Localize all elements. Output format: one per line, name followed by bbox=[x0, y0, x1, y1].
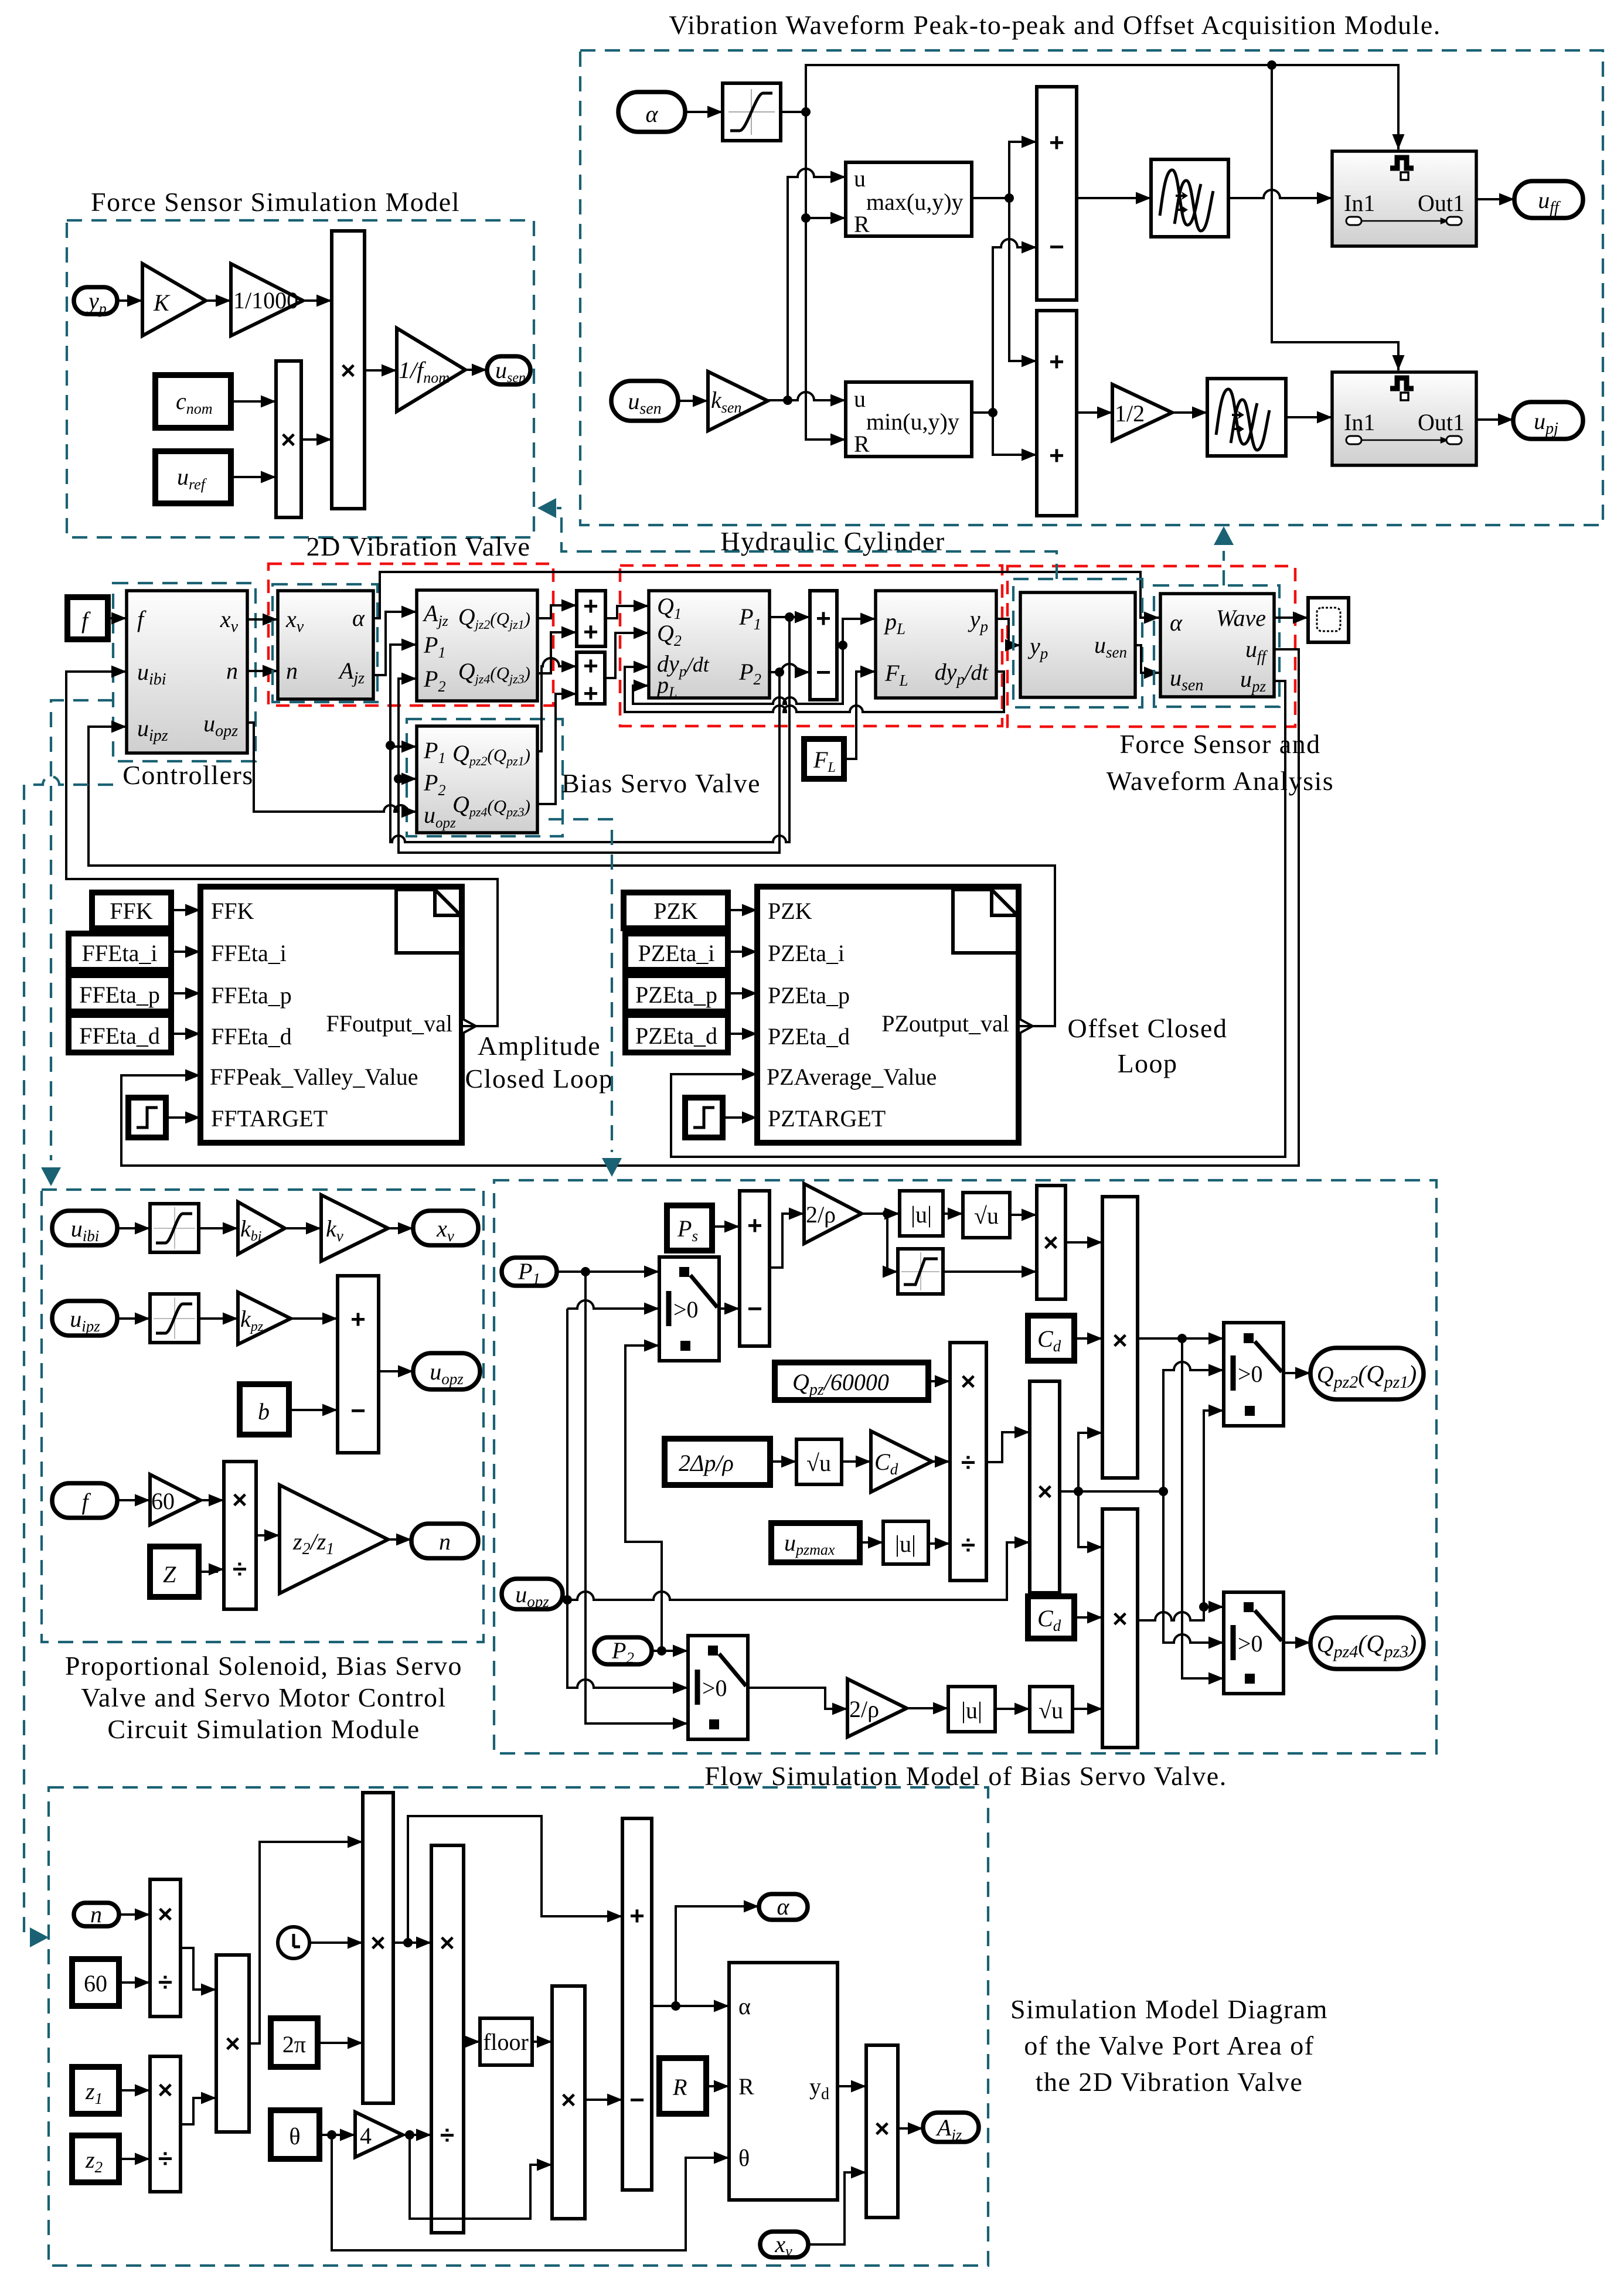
hydraulic cylinder block bbox=[649, 591, 770, 701]
svg-text:Wave: Wave bbox=[1216, 605, 1266, 631]
node ksen out bbox=[783, 396, 792, 405]
svg-text:60: 60 bbox=[84, 1970, 107, 1997]
node tallx1 out bbox=[1177, 1334, 1187, 1343]
svg-text:×: × bbox=[961, 1367, 976, 1396]
svg-text:PZTARGET: PZTARGET bbox=[768, 1105, 886, 1132]
gain Cd bbox=[871, 1431, 932, 1492]
wire controllers xv to valve xv bbox=[247, 618, 278, 621]
svg-text:÷: ÷ bbox=[961, 1531, 975, 1559]
svg-text:>0: >0 bbox=[673, 1296, 699, 1323]
wire abs to sqrt bbox=[943, 1212, 963, 1215]
constant 2dp/rho bbox=[665, 1439, 770, 1485]
node P1 to bias bbox=[386, 741, 395, 750]
wire prod5 to floor bbox=[464, 2041, 480, 2043]
svg-text:÷: ÷ bbox=[158, 1968, 172, 1997]
svg-text:÷: ÷ bbox=[440, 2121, 454, 2150]
wire Cd2 to tallx2 bbox=[1074, 1616, 1102, 1619]
wire alpha long to waveform analysis bbox=[373, 572, 1159, 618]
svg-text:−: − bbox=[816, 658, 831, 687]
switch top bbox=[1224, 1323, 1283, 1426]
node P2 to bias bbox=[394, 774, 403, 784]
svg-text:Proportional Solenoid, Bias Se: Proportional Solenoid, Bias Servo bbox=[65, 1651, 462, 1681]
svg-text:α: α bbox=[1170, 609, 1183, 636]
node theta bbox=[327, 2130, 336, 2140]
svg-text:n: n bbox=[90, 1901, 102, 1927]
riser P1 feedback bbox=[390, 617, 789, 842]
svg-text:×: × bbox=[440, 1929, 455, 1957]
wire Z to prod6 bbox=[199, 1569, 224, 1572]
svg-text:−: − bbox=[1049, 233, 1064, 261]
red box force sensor and waveform bbox=[1007, 566, 1295, 727]
wire dot2 down to switchbot control with hop bbox=[1163, 1491, 1224, 1643]
svg-text:÷: ÷ bbox=[961, 1448, 975, 1477]
gain K bbox=[142, 264, 206, 336]
svg-text:>0: >0 bbox=[1238, 1361, 1263, 1387]
inport oval alpha bbox=[618, 92, 685, 132]
product rightx bbox=[552, 1986, 585, 2219]
wire rightx to alphasum minus bbox=[585, 2099, 622, 2101]
wire sat3 to kpz bbox=[199, 1317, 238, 1320]
source FFEta_d bbox=[69, 1015, 171, 1052]
constant Qpz60000 bbox=[775, 1362, 928, 1400]
abs block 2 bbox=[883, 1521, 928, 1564]
wire sqrt3 to tallx2 bbox=[1073, 1708, 1102, 1710]
enabled subsystem 2 bbox=[1332, 372, 1476, 465]
wire prod2 to prod3 bbox=[181, 2098, 216, 2124]
gain ksen bbox=[708, 372, 768, 431]
connector waveform module annotation bbox=[1214, 526, 1234, 585]
svg-text:PZEta_i: PZEta_i bbox=[768, 940, 845, 966]
product prod1 bbox=[150, 1879, 181, 2017]
svg-text:Out1: Out1 bbox=[1418, 190, 1465, 216]
saturation block 2 bbox=[150, 1204, 199, 1252]
wire wave1 to subsystem1 In1 with hop bbox=[1228, 190, 1332, 198]
source block f bbox=[67, 597, 108, 639]
svg-text:+: + bbox=[629, 1902, 645, 1930]
svg-text:In1: In1 bbox=[1344, 409, 1375, 435]
wire floor to rightx bbox=[532, 2041, 552, 2043]
svg-text:4: 4 bbox=[360, 2123, 372, 2149]
wire step to FFTARGET bbox=[166, 1116, 200, 1119]
wire PZoutput to uipz bbox=[88, 727, 1055, 1026]
wire pL feedback down and left bbox=[633, 645, 843, 704]
svg-text:PZoutput_val: PZoutput_val bbox=[881, 1010, 1009, 1037]
gain 2rho2 bbox=[847, 1679, 907, 1737]
wire tallx4 out to prod5 bbox=[393, 1941, 431, 1944]
outport oval alpha2 bbox=[759, 1893, 808, 1920]
constant Z bbox=[150, 1547, 199, 1597]
product1 tall bbox=[332, 231, 365, 509]
svg-text:Qpz/60000: Qpz/60000 bbox=[792, 1369, 889, 1399]
wire sum pL to piston pL bbox=[837, 619, 876, 645]
source FFEta_i bbox=[69, 934, 171, 970]
svg-text:÷: ÷ bbox=[233, 1555, 247, 1583]
outport oval xv bbox=[413, 1211, 478, 1245]
svg-text:>0: >0 bbox=[702, 1675, 727, 1701]
wire xv2 to finalx bbox=[808, 2172, 866, 2244]
gain 2/rho top bbox=[804, 1184, 862, 1244]
wire top rail branch down to subsystem2 enable bbox=[1272, 65, 1398, 370]
riser uopz down to switch2 control with hop bbox=[567, 1600, 688, 1688]
node gain4 out bbox=[405, 2130, 414, 2140]
svg-text:+: + bbox=[1049, 128, 1064, 157]
source PZEta_i bbox=[625, 934, 728, 970]
force sensor block bbox=[1020, 592, 1135, 697]
wire uibi to sat2 bbox=[117, 1227, 150, 1229]
svg-text:α: α bbox=[777, 1893, 790, 1920]
outport oval uopz bbox=[413, 1353, 480, 1389]
svg-text:+: + bbox=[1049, 441, 1064, 470]
svg-text:+: + bbox=[583, 652, 598, 680]
wire theta branch to subsystem theta bbox=[332, 2135, 729, 2250]
wire max branch down to sum2 plus bbox=[1009, 198, 1037, 361]
wire 60 to prod6 bbox=[200, 1499, 224, 1501]
wire dypdt feedback bbox=[625, 667, 1004, 712]
svg-text:the 2D Vibration Valve: the 2D Vibration Valve bbox=[1036, 2067, 1303, 2097]
svg-text:×: × bbox=[1112, 1605, 1128, 1633]
wire P2 jog to switch1 lower input bbox=[625, 1346, 662, 1651]
svg-text:Simulation Model Diagram: Simulation Model Diagram bbox=[1010, 1994, 1328, 2024]
bias servo flow block bbox=[417, 726, 537, 833]
sqrt block 3 bbox=[1030, 1687, 1073, 1732]
svg-text:×: × bbox=[561, 2086, 576, 2114]
output nib FFoutput_val bbox=[462, 1019, 476, 1034]
svg-text:×: × bbox=[1043, 1228, 1058, 1257]
svg-text:×: × bbox=[341, 356, 356, 385]
wire FL to piston bbox=[844, 672, 876, 759]
wire Qpz2 to sumB with hop bbox=[537, 658, 577, 751]
product prodB bbox=[950, 1343, 986, 1580]
svg-text:n: n bbox=[286, 658, 298, 684]
svg-text:√u: √u bbox=[974, 1203, 999, 1229]
svg-text:u: u bbox=[854, 165, 866, 192]
svg-text:Bias Servo Valve: Bias Servo Valve bbox=[561, 768, 761, 798]
wire tallx4 branch up over to alpha sum bbox=[408, 1816, 622, 1943]
wire yp to force sensor bbox=[996, 619, 1020, 645]
svg-text:R: R bbox=[854, 431, 870, 457]
svg-text:FFEta_i: FFEta_i bbox=[82, 940, 158, 966]
wire Qpz60000 to prodB bbox=[928, 1380, 950, 1382]
svg-text:PZEta_p: PZEta_p bbox=[635, 982, 717, 1008]
wire z1 to prod2 bbox=[119, 2089, 150, 2092]
annotation box flow simulation bbox=[494, 1180, 1436, 1753]
wire subsystem1 to uff bbox=[1476, 198, 1514, 200]
outport oval Qpz4(Qpz3) bbox=[1310, 1617, 1424, 1669]
wire sqrt to prodA bbox=[1010, 1214, 1037, 1216]
wires PZ sources to PZ block bbox=[728, 909, 757, 911]
annotation box vibration waveform module bbox=[580, 50, 1603, 525]
svg-text:n: n bbox=[439, 1528, 451, 1555]
constant theta bbox=[271, 2110, 319, 2159]
wire sum3 to uopz bbox=[379, 1370, 413, 1372]
wire half to wave2 bbox=[1172, 411, 1207, 414]
wire z2z1 to n bbox=[388, 1538, 411, 1541]
svg-text:max(u,y)y: max(u,y)y bbox=[866, 189, 963, 215]
wire P2 branch to bias P2 bbox=[399, 778, 417, 780]
switch1 bbox=[659, 1257, 719, 1361]
wire saturation out to junction and top rail to subsystem1 enable bbox=[781, 65, 1398, 149]
svg-text:+: + bbox=[583, 618, 598, 646]
sqrt block u1 bbox=[963, 1193, 1010, 1238]
wire sumA to Q1 bbox=[605, 606, 649, 618]
wire abs2 to prodB bbox=[928, 1542, 950, 1545]
wire f2 to 60 gain bbox=[117, 1499, 150, 1501]
wire 2dp to sqrt2 bbox=[770, 1460, 796, 1463]
red box hydraulic cylinder bbox=[620, 566, 1002, 726]
wire prodB to midx bbox=[986, 1432, 1030, 1462]
inport oval usen bbox=[611, 381, 678, 421]
node after 2rho bbox=[883, 1209, 892, 1218]
wire uopz riser to switch1 control with hop bbox=[567, 1300, 659, 1309]
outport oval Ajz2 bbox=[923, 2113, 979, 2144]
svg-text:floor: floor bbox=[483, 2029, 529, 2055]
svg-text:√u: √u bbox=[806, 1450, 831, 1476]
wire dot1 up to tallx1 third input bbox=[1078, 1433, 1102, 1491]
product midx bbox=[1030, 1381, 1060, 1593]
sum pL bbox=[810, 591, 837, 700]
svg-text:b: b bbox=[258, 1398, 270, 1425]
annotation box waveform analysis bbox=[1154, 585, 1279, 707]
product2 small bbox=[276, 361, 301, 517]
wire midx out bbox=[1060, 1490, 1163, 1493]
product tallx4 bbox=[363, 1793, 393, 2103]
inport oval f2 bbox=[52, 1483, 117, 1518]
wire yd to finalx bbox=[837, 2085, 866, 2087]
svg-text:FFTARGET: FFTARGET bbox=[211, 1105, 328, 1132]
product prodA bbox=[1037, 1186, 1065, 1299]
node saturation out bbox=[801, 107, 811, 117]
gain kbi bbox=[238, 1202, 285, 1254]
svg-text:FFK: FFK bbox=[110, 898, 152, 924]
product prod6 bbox=[224, 1462, 256, 1609]
svg-text:−: − bbox=[747, 1295, 762, 1323]
source FFK bbox=[92, 893, 171, 928]
inport oval xv2 bbox=[760, 2231, 808, 2260]
svg-text:+: + bbox=[583, 679, 598, 708]
annotation box valve port area bbox=[49, 1787, 988, 2266]
svg-text:R: R bbox=[854, 211, 870, 237]
svg-text:θ: θ bbox=[289, 2123, 300, 2150]
node R branch bbox=[801, 213, 811, 223]
2d valve subsystem bbox=[278, 591, 373, 699]
wire kpz to sum3 bbox=[291, 1317, 338, 1320]
svg-text:|u|: |u| bbox=[895, 1531, 916, 1557]
waveform analysis block bbox=[1160, 594, 1274, 697]
wire 2rho branch to deadzone bbox=[887, 1214, 898, 1272]
svg-text:−: − bbox=[629, 2086, 645, 2114]
min block bbox=[846, 382, 972, 457]
constant upzmax bbox=[771, 1523, 860, 1562]
svg-text:PZK: PZK bbox=[768, 898, 812, 924]
sum1 peak minus valley bbox=[1037, 87, 1077, 300]
constant cnom bbox=[155, 375, 231, 428]
product prod5 bbox=[431, 1845, 464, 2233]
svg-text:Controllers: Controllers bbox=[122, 760, 253, 790]
wire alphasum out to subsystem alpha bbox=[652, 2005, 729, 2007]
connector controllers annotation bbox=[41, 700, 113, 1186]
node tallx2 branch bbox=[1199, 1602, 1208, 1612]
wire tallx2 out up to switchtop bottom with hops bbox=[1138, 1411, 1224, 1620]
wire min branch down to sum2 plus2 bbox=[993, 413, 1037, 455]
svg-text:>0: >0 bbox=[1238, 1630, 1263, 1657]
wire P2 to switch2 bbox=[652, 1650, 688, 1652]
wire sqrt2 to Cd gain bbox=[842, 1460, 871, 1463]
sum alpha bbox=[622, 1818, 652, 2190]
svg-text:FFoutput_val: FFoutput_val bbox=[326, 1010, 452, 1037]
svg-text:FFPeak_Valley_Value: FFPeak_Valley_Value bbox=[210, 1064, 418, 1090]
floor block bbox=[480, 2018, 532, 2065]
svg-text:Circuit Simulation Module: Circuit Simulation Module bbox=[107, 1714, 420, 1744]
sumA Q1 bbox=[577, 591, 605, 646]
wave block 1 bbox=[1151, 159, 1228, 237]
wire b to sum3 bbox=[289, 1409, 338, 1411]
wire Qjz2 to sumA bbox=[537, 605, 577, 618]
svg-text:×: × bbox=[225, 2029, 240, 2058]
constant Ps bbox=[667, 1205, 712, 1251]
node tallx4 out bbox=[403, 1938, 413, 1947]
svg-text:1/2: 1/2 bbox=[1115, 400, 1145, 427]
outport oval n bbox=[411, 1524, 478, 1558]
svg-text:PZEta_i: PZEta_i bbox=[638, 940, 714, 966]
max block bbox=[846, 162, 972, 237]
node max out bbox=[1005, 193, 1014, 203]
node midx dot1 bbox=[1074, 1487, 1083, 1496]
svg-text:FFEta_d: FFEta_d bbox=[79, 1023, 160, 1049]
wire prod6 to z2z1 bbox=[256, 1534, 280, 1537]
node P1 out bbox=[785, 612, 794, 622]
flowsum bbox=[740, 1191, 770, 1346]
wire Ps to flowsum bbox=[712, 1225, 740, 1228]
sqrt block 2 bbox=[796, 1439, 842, 1484]
PZ matlab function block bbox=[757, 887, 1019, 1143]
svg-text:K: K bbox=[153, 289, 171, 316]
svg-text:×: × bbox=[1112, 1326, 1128, 1355]
svg-text:×: × bbox=[158, 2076, 173, 2104]
node uopz bbox=[563, 1595, 572, 1605]
node P2 bbox=[657, 1646, 666, 1656]
svg-text:min(u,y)y: min(u,y)y bbox=[866, 408, 959, 435]
svg-text:+: + bbox=[1049, 348, 1064, 376]
connector force sensor annotation bbox=[537, 498, 1057, 579]
wire usen to waveform bbox=[1135, 645, 1159, 673]
wire deadzone to prodA bbox=[943, 1270, 1037, 1273]
gain 1/1000 bbox=[231, 264, 303, 336]
outport oval Qpz2(Qpz1) bbox=[1310, 1348, 1424, 1399]
wire Qjz4 to sumA lower bbox=[537, 632, 577, 673]
wire dot2 up to switchtop control with hop bbox=[1163, 1362, 1224, 1491]
product prod3 bbox=[216, 1955, 249, 2132]
gain 4 bbox=[355, 2112, 403, 2157]
svg-text:√u: √u bbox=[1039, 1697, 1063, 1723]
wire max out to sum1 plus bbox=[972, 142, 1037, 198]
wire Ajz to Qjz block bbox=[373, 612, 417, 675]
wire P2 to sum minus with hop bbox=[770, 664, 810, 672]
svg-text:θ: θ bbox=[738, 2145, 750, 2171]
abs block u1 bbox=[900, 1191, 943, 1236]
svg-text:|u|: |u| bbox=[961, 1697, 982, 1723]
gain 60 bbox=[150, 1474, 200, 1525]
source FFEta_p bbox=[69, 975, 171, 1011]
node min out bbox=[988, 408, 997, 417]
source PZK bbox=[624, 893, 728, 928]
wire wave2 to subsystem2 bbox=[1286, 416, 1332, 418]
wire product2 to product1 bbox=[301, 438, 332, 441]
svg-text:2Δp/ρ: 2Δp/ρ bbox=[679, 1450, 734, 1476]
svg-text:−: − bbox=[350, 1396, 366, 1425]
svg-text:Valve and Servo Motor Control: Valve and Servo Motor Control bbox=[81, 1682, 447, 1712]
svg-text:PZK: PZK bbox=[653, 898, 698, 924]
inport oval uopz2 bbox=[502, 1579, 563, 1610]
wire kbi to kv bbox=[285, 1227, 321, 1229]
wire sum1 to wave1 bbox=[1077, 197, 1151, 199]
saturation block top bbox=[723, 83, 781, 141]
product prod2 bbox=[150, 2056, 181, 2192]
wire gain4 to prod5 bbox=[403, 2134, 431, 2136]
wire Cd gain to prodB bbox=[932, 1460, 950, 1463]
gain 1/fnom bbox=[397, 328, 465, 411]
svg-text:+: + bbox=[816, 604, 831, 633]
abs block 3 bbox=[948, 1687, 995, 1732]
svg-text:60: 60 bbox=[151, 1488, 175, 1514]
wire n2 to prod1 bbox=[119, 1913, 150, 1916]
wire P1 to sum plus bbox=[770, 616, 810, 618]
inport oval uipz bbox=[52, 1301, 117, 1336]
wire upzmax to abs2 bbox=[860, 1541, 883, 1544]
svg-text:2D Vibration Valve: 2D Vibration Valve bbox=[307, 532, 531, 561]
wire sumB to Q2 bbox=[605, 633, 649, 678]
product tallx2 bbox=[1102, 1509, 1138, 1748]
saturation block 3 bbox=[150, 1294, 199, 1343]
svg-text:+: + bbox=[350, 1305, 366, 1334]
step block PZTARGET bbox=[685, 1098, 723, 1137]
wire uopz from controllers to bias with hops bbox=[247, 723, 417, 812]
wire cnom to product2 bbox=[231, 400, 276, 403]
annotation box force sensor sim model bbox=[67, 220, 534, 537]
wire sat2 to kbi bbox=[199, 1227, 238, 1229]
svg-text:|u|: |u| bbox=[911, 1201, 932, 1228]
svg-text:FFEta_p: FFEta_p bbox=[211, 982, 292, 1009]
svg-text:×: × bbox=[158, 1900, 173, 1929]
svg-text:×: × bbox=[281, 425, 296, 454]
annotation box force sensor bbox=[1013, 579, 1142, 707]
wire uref to product2 bbox=[231, 476, 276, 478]
wire gain4 branch to rightx lower bbox=[410, 2135, 552, 2219]
wire 2pi to tallx4 bbox=[318, 2042, 363, 2044]
wire P1 branch to bias P1 bbox=[390, 745, 417, 748]
svg-text:1/1000: 1/1000 bbox=[233, 287, 298, 314]
svg-text:u: u bbox=[854, 386, 866, 412]
wire finalx to Ajz oval bbox=[898, 2127, 923, 2130]
wire sum2 to half gain bbox=[1077, 411, 1112, 414]
constant uref bbox=[155, 451, 231, 503]
constant z2 bbox=[72, 2135, 119, 2182]
svg-text:Amplitude: Amplitude bbox=[478, 1031, 601, 1061]
constant 60b bbox=[72, 1959, 119, 2006]
wire saturation junction down to min R and branch max R bbox=[806, 112, 846, 440]
svg-text:R: R bbox=[672, 2074, 687, 2100]
wire z2 to prod2 bbox=[119, 2158, 150, 2160]
riser P1 down to switch2 bottom bbox=[585, 1272, 688, 1723]
wire switch1 to flowsum minus bbox=[719, 1307, 740, 1310]
deadzone block bbox=[898, 1249, 943, 1294]
product finalx bbox=[866, 2045, 898, 2218]
svg-text:2/ρ: 2/ρ bbox=[806, 1201, 836, 1228]
inport oval uibi bbox=[52, 1211, 117, 1245]
wire kv to xv bbox=[388, 1227, 413, 1229]
clock block bbox=[278, 1927, 309, 1958]
svg-text:Offset Closed: Offset Closed bbox=[1068, 1013, 1228, 1043]
enabled subsystem 1 bbox=[1332, 151, 1476, 246]
